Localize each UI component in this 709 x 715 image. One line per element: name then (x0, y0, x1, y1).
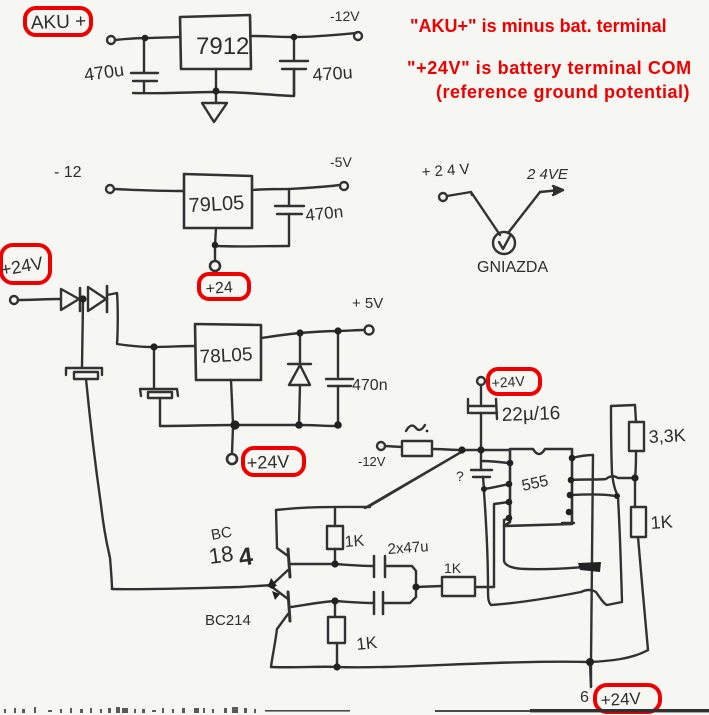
svg-text:79L05: 79L05 (188, 192, 245, 217)
svg-text:470n: 470n (304, 202, 344, 225)
svg-text:6: 6 (580, 689, 589, 706)
svg-text:78L05: 78L05 (199, 344, 253, 368)
svg-text:18: 18 (207, 541, 235, 569)
svg-text:3,3K: 3,3K (648, 425, 686, 447)
svg-text:2x47u: 2x47u (387, 538, 429, 558)
svg-text:?: ? (456, 468, 464, 484)
svg-text:1K: 1K (444, 560, 462, 576)
svg-text:22µ/16: 22µ/16 (501, 403, 560, 426)
svg-text:-12V: -12V (358, 454, 386, 469)
svg-text:- 12: - 12 (54, 164, 82, 181)
svg-text:(reference ground potential): (reference ground potential) (436, 82, 690, 102)
svg-text:-5V: -5V (330, 154, 352, 170)
svg-text:+ 2 4 V: + 2 4 V (421, 161, 470, 181)
svg-text:-12V: -12V (330, 8, 360, 24)
svg-text:2 4VE: 2 4VE (526, 166, 569, 183)
svg-text:1K: 1K (650, 512, 673, 533)
svg-text:"+24V" is battery terminal COM: "+24V" is battery terminal COM (407, 58, 692, 78)
svg-text:7912: 7912 (196, 33, 249, 60)
svg-text:+24V: +24V (600, 689, 642, 710)
svg-text:"AKU+" is minus bat. terminal: "AKU+" is minus bat. terminal (410, 16, 667, 36)
svg-text:AKU +: AKU + (30, 11, 86, 34)
svg-text:+24: +24 (205, 279, 233, 298)
svg-text:GNIAZDA: GNIAZDA (477, 259, 548, 276)
svg-text:+ 5V: + 5V (352, 295, 383, 312)
svg-text:470u: 470u (312, 62, 353, 85)
svg-text:BC214: BC214 (205, 612, 251, 629)
svg-text:+24V: +24V (491, 373, 526, 391)
svg-text:1K: 1K (355, 633, 378, 654)
svg-text:1K: 1K (344, 533, 365, 551)
svg-text:+24V: +24V (246, 452, 289, 473)
svg-text:470n: 470n (352, 377, 388, 394)
